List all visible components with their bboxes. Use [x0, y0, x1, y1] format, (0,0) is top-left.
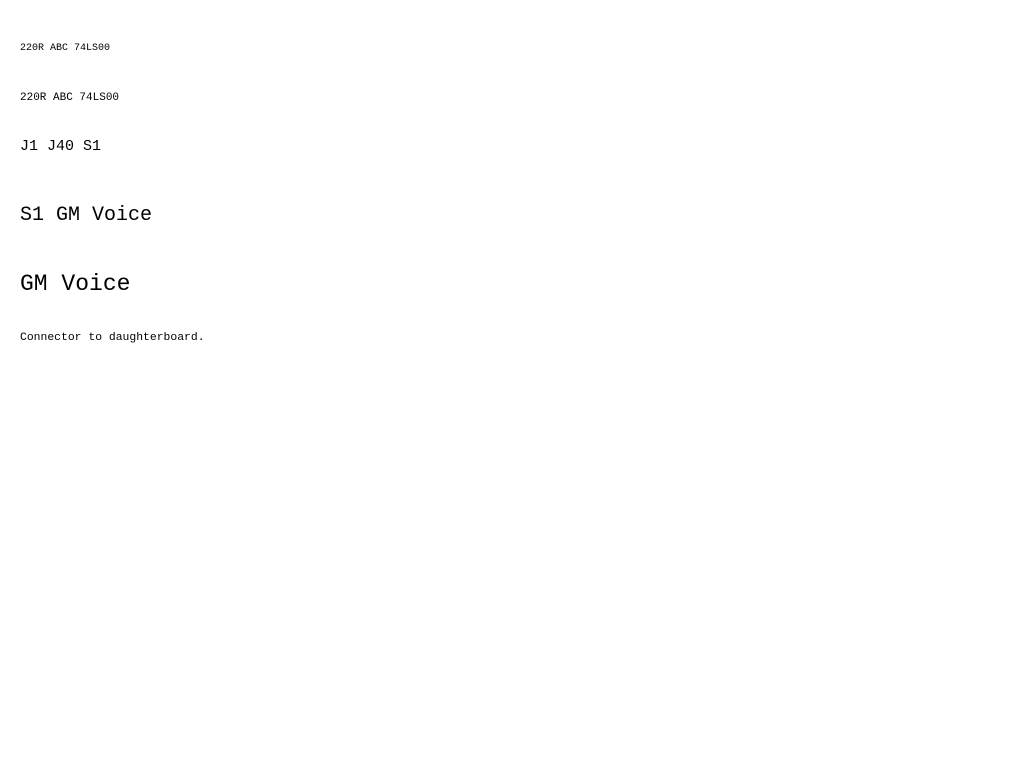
svg-text:Connector to daughterboard.: Connector to daughterboard.: [20, 332, 205, 344]
svg-text:GM Voice: GM Voice: [20, 271, 130, 297]
svg-text:S1 GM Voice: S1 GM Voice: [20, 204, 152, 227]
svg-text:220R ABC 74LS00: 220R ABC 74LS00: [20, 92, 119, 104]
svg-text:220R ABC 74LS00: 220R ABC 74LS00: [20, 43, 110, 54]
svg-text:J1 J40 S1: J1 J40 S1: [20, 138, 101, 155]
